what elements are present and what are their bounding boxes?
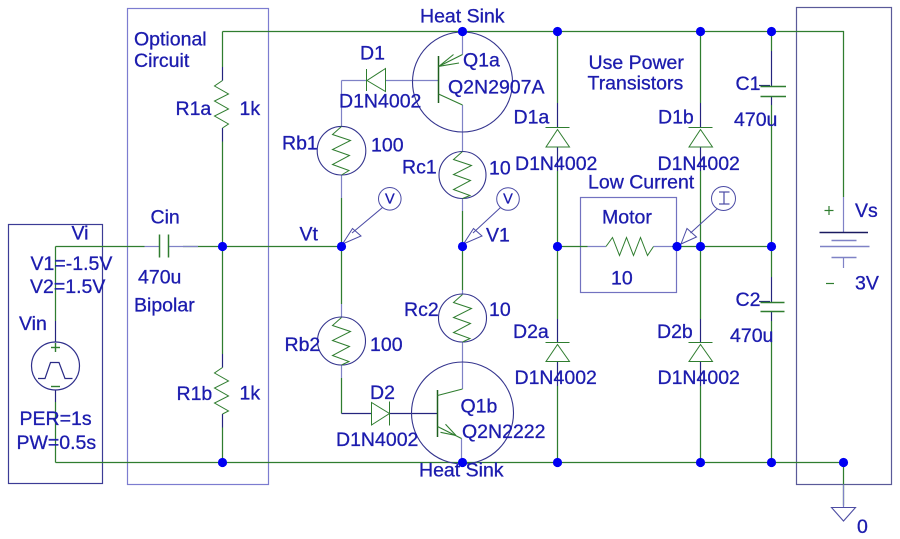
svg-text:Optional: Optional [134, 29, 207, 51]
svg-text:Motor: Motor [602, 207, 652, 229]
svg-text:Cin: Cin [151, 207, 180, 229]
svg-text:D1N4002: D1N4002 [515, 153, 597, 175]
svg-text:D2a: D2a [513, 321, 549, 343]
svg-text:V: V [385, 192, 395, 208]
svg-text:Vs: Vs [855, 200, 878, 222]
svg-text:Vi: Vi [72, 223, 89, 245]
svg-text:Rb2: Rb2 [285, 334, 321, 356]
svg-text:C2: C2 [736, 289, 761, 311]
svg-text:100: 100 [371, 135, 404, 157]
svg-text:100: 100 [370, 334, 403, 356]
svg-text:10: 10 [489, 299, 511, 321]
svg-text:D2: D2 [370, 382, 395, 404]
svg-text:470u: 470u [730, 325, 773, 347]
svg-text:V1: V1 [486, 225, 510, 247]
svg-text:Q1a: Q1a [463, 50, 500, 72]
svg-text:Heat Sink: Heat Sink [420, 6, 505, 28]
svg-text:Vin: Vin [19, 313, 47, 335]
svg-text:C1: C1 [736, 73, 761, 95]
svg-text:3V: 3V [855, 273, 879, 295]
svg-text:Rc1: Rc1 [402, 157, 437, 179]
svg-text:10: 10 [489, 158, 511, 180]
svg-text:470u: 470u [734, 109, 777, 131]
svg-text:Transistors: Transistors [588, 73, 684, 95]
svg-text:PW=0.5s: PW=0.5s [17, 432, 97, 454]
svg-text:Low Current: Low Current [588, 172, 695, 194]
svg-text:Rb1: Rb1 [282, 133, 318, 155]
svg-text:1k: 1k [240, 383, 261, 405]
svg-text:D1N4002: D1N4002 [339, 91, 421, 113]
svg-text:10: 10 [611, 268, 633, 290]
svg-text:PER=1s: PER=1s [20, 408, 92, 430]
svg-text:R1a: R1a [176, 98, 212, 120]
svg-text:Q1b: Q1b [461, 396, 498, 418]
svg-text:Heat Sink: Heat Sink [419, 460, 504, 482]
svg-text:470u: 470u [138, 267, 181, 289]
svg-text:V1=-1.5V: V1=-1.5V [31, 253, 113, 275]
svg-text:V: V [503, 192, 513, 208]
svg-text:V2=1.5V: V2=1.5V [30, 276, 105, 298]
svg-text:Q2N2222: Q2N2222 [462, 421, 545, 443]
svg-text:Vt: Vt [300, 224, 319, 246]
svg-text:D1N4002: D1N4002 [658, 367, 740, 389]
svg-text:D1: D1 [360, 43, 385, 65]
svg-text:Q2N2907A: Q2N2907A [448, 77, 544, 99]
svg-text:D1N4002: D1N4002 [515, 367, 597, 389]
svg-text:R1b: R1b [177, 383, 213, 405]
svg-text:Use Power: Use Power [589, 52, 685, 74]
svg-text:D1b: D1b [658, 107, 694, 129]
svg-text:D1a: D1a [514, 107, 550, 129]
svg-text:Bipolar: Bipolar [134, 295, 195, 317]
svg-text:Rc2: Rc2 [404, 299, 439, 321]
svg-text:Circuit: Circuit [134, 50, 190, 72]
svg-text:D2b: D2b [657, 321, 693, 343]
svg-text:D1N4002: D1N4002 [336, 429, 418, 451]
svg-text:1k: 1k [240, 98, 261, 120]
svg-text:0: 0 [857, 516, 868, 538]
